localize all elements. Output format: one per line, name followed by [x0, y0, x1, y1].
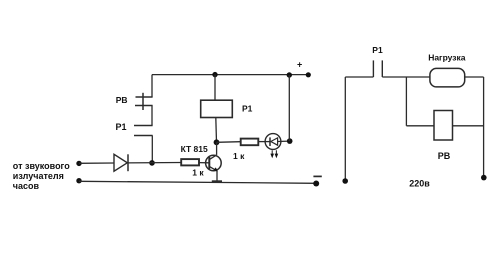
node junction top rail to relay P1	[212, 72, 217, 77]
wire top left segment	[345, 76, 373, 78]
minus sign	[313, 175, 321, 177]
wire relay to collector node	[215, 118, 218, 143]
wire R2 to LED	[258, 141, 270, 143]
LED arrow 1	[270, 150, 274, 158]
diode VD1	[114, 154, 127, 171]
contact PB (normally closed)	[135, 93, 153, 110]
wire left rail right circuit	[344, 77, 346, 181]
resistor R1 1k	[181, 159, 199, 165]
node input lower terminal	[76, 178, 81, 183]
wire top middle segment	[382, 76, 430, 78]
wire diode to R1	[128, 162, 181, 164]
svg-text:Нагрузка: Нагрузка	[428, 52, 466, 62]
node 220v right terminal	[481, 175, 487, 181]
svg-text:P1: P1	[242, 104, 253, 114]
wire right rail right circuit	[483, 77, 485, 178]
svg-text:P1: P1	[116, 122, 127, 132]
node plus terminal	[306, 72, 311, 77]
node junction diode/base wire	[149, 160, 155, 166]
load box Нагрузка	[430, 68, 465, 87]
relay coil PB	[434, 111, 453, 141]
svg-text:1 к: 1 к	[192, 167, 204, 177]
resistor R2 1k	[241, 139, 259, 146]
node 220v left terminal	[342, 178, 348, 184]
wire right rail	[288, 75, 290, 141]
node minus terminal	[313, 181, 319, 187]
relay coil P1	[201, 100, 233, 117]
LED arrow 2	[275, 150, 279, 158]
contact P1 right circuit	[373, 60, 382, 77]
svg-text:от звукового: от звукового	[13, 161, 70, 171]
wire collector node to resistor R2	[217, 141, 241, 144]
node junction top rail to right rail	[287, 72, 292, 77]
svg-text:PB: PB	[438, 151, 451, 161]
wire P1 contact down to base node	[151, 136, 153, 164]
wire between PB and P1 contacts	[151, 106, 153, 126]
node LED to right rail	[287, 138, 293, 144]
svg-text:PB: PB	[116, 95, 128, 105]
wire input to diode	[79, 162, 114, 164]
svg-text:часов: часов	[13, 181, 40, 191]
wire branch down to PB coil	[405, 77, 407, 126]
wire bottom rail	[79, 181, 316, 183]
svg-text:P1: P1	[372, 45, 383, 55]
wire left vertical into PB contact	[151, 75, 153, 97]
LED HL1	[265, 134, 281, 150]
node collector junction	[214, 139, 220, 145]
svg-text:излучателя: излучателя	[13, 171, 64, 181]
svg-text:+: +	[297, 59, 302, 69]
svg-text:КТ 815: КТ 815	[181, 144, 208, 154]
wire PB coil to right rail	[453, 125, 484, 127]
wire relay branch	[214, 75, 216, 101]
transistor VT1 KT815	[206, 155, 222, 171]
transistor collector	[209, 155, 216, 160]
contact P1 (normally open)	[134, 126, 153, 136]
wire R1 to base	[199, 162, 209, 164]
node input upper terminal	[76, 161, 81, 166]
wire load to right rail	[465, 76, 484, 78]
wire top rail left circuit	[152, 74, 308, 76]
svg-text:1 к: 1 к	[233, 151, 245, 161]
transistor emitter	[209, 166, 217, 171]
svg-text:220в: 220в	[409, 179, 430, 189]
